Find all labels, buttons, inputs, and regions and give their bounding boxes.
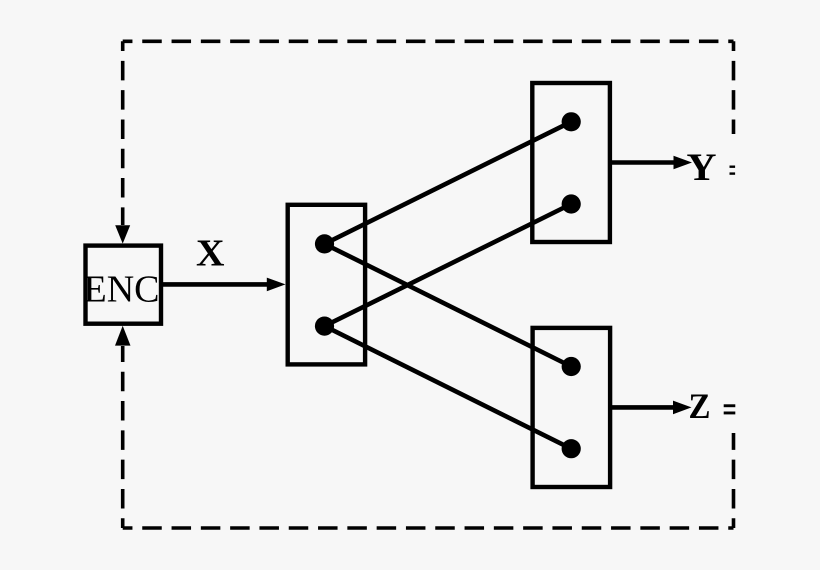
svg-text:ENC: ENC [84, 269, 160, 311]
svg-text:Z: Z [689, 386, 711, 426]
svg-text:Y: Y [687, 146, 717, 189]
svg-text:X: X [196, 233, 225, 275]
